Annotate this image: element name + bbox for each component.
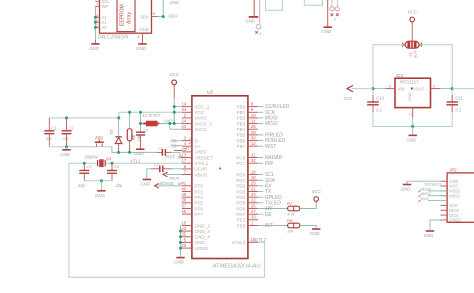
- pin PE2 stub: [248, 219, 258, 221]
- svg-text:44: 44: [181, 124, 186, 129]
- junction VCC pin14: [173, 105, 176, 108]
- wire SDA up: [162, 0, 164, 17]
- svg-text:10: 10: [251, 113, 256, 118]
- svg-text:SENSE: SENSE: [160, 181, 174, 186]
- svg-text:RD+: RD+: [170, 143, 179, 148]
- svg-text:PB6: PB6: [237, 138, 246, 143]
- svg-text:21: 21: [251, 186, 256, 191]
- svg-text:L2: L2: [143, 113, 148, 117]
- svg-text:11: 11: [251, 119, 256, 124]
- resistor R5: [127, 129, 132, 141]
- wire VCC rail B: [119, 111, 174, 113]
- wire C2 gnd drop: [66, 147, 68, 150]
- svg-text:GND: GND: [424, 233, 435, 238]
- svg-text:GND: GND: [310, 231, 321, 236]
- svg-text:SDA: SDA: [168, 14, 177, 19]
- junction A0: [94, 26, 97, 29]
- IC1 pin 2: [431, 88, 441, 90]
- svg-text:GND: GND: [134, 151, 145, 156]
- svg-text:9: 9: [251, 107, 254, 112]
- junction pin2: [451, 87, 454, 90]
- svg-text:C1: C1: [51, 126, 56, 131]
- svg-text:VCC: VCC: [408, 9, 418, 14]
- svg-text:30: 30: [251, 136, 256, 141]
- svg-text:XTAL2: XTAL2: [232, 240, 246, 245]
- junction VCC pin34: [173, 111, 176, 114]
- svg-text:2: 2: [184, 113, 187, 118]
- junction C2 bottom: [65, 145, 68, 148]
- svg-text:PE6: PE6: [237, 223, 246, 228]
- svg-text:GND: GND: [95, 193, 106, 198]
- U2 SDA pin 5: [152, 16, 158, 18]
- svg-text:3V3: 3V3: [344, 96, 353, 101]
- ground below UCAP: [143, 179, 151, 181]
- svg-text:25: 25: [251, 192, 256, 197]
- svg-text:VCC: VCC: [170, 72, 180, 77]
- svg-text:WP: WP: [102, 4, 109, 9]
- wire GND rail: [49, 146, 112, 148]
- svg-text:4.7k: 4.7k: [287, 212, 296, 217]
- wire INT net: [248, 225, 258, 227]
- supply VCC regulator: [410, 17, 415, 22]
- svg-text:PB4: PB4: [237, 127, 246, 132]
- svg-text:GND2: GND2: [449, 218, 461, 223]
- svg-text:42: 42: [181, 147, 186, 152]
- svg-text:16MHz: 16MHz: [84, 154, 99, 159]
- svg-text:A0: A0: [102, 25, 108, 30]
- svg-text:BLM: BLM: [413, 51, 417, 58]
- svg-text:GND_2: GND_2: [195, 223, 211, 228]
- svg-text:GND: GND: [60, 152, 71, 157]
- svg-text:40: 40: [181, 186, 186, 191]
- jumper pads S1: [330, 7, 334, 11]
- svg-text:C11: C11: [455, 95, 462, 100]
- ground JP2 top: [403, 184, 411, 186]
- svg-text:U1: U1: [207, 90, 213, 96]
- wire regulator loop: [373, 45, 452, 127]
- svg-text:PD2: PD2: [236, 184, 245, 189]
- wire VCC rail jog: [118, 112, 120, 118]
- junction C3 top: [83, 162, 86, 165]
- wire AVCC to pins: [169, 124, 171, 130]
- wire UCAP: [172, 168, 182, 170]
- svg-text:PD6: PD6: [236, 206, 245, 211]
- svg-text:4: 4: [137, 35, 139, 39]
- svg-text:REG1117: REG1117: [400, 79, 419, 84]
- U1 internal mark: [219, 168, 221, 170]
- wire RST from button: [112, 147, 157, 153]
- svg-text:PD0: PD0: [236, 172, 245, 177]
- svg-text:SCK: SCK: [421, 196, 430, 201]
- svg-text:1: 1: [409, 113, 413, 115]
- svg-text:R8: R8: [287, 218, 293, 223]
- svg-text:20: 20: [251, 181, 256, 186]
- svg-text:PD7: PD7: [236, 212, 245, 217]
- svg-text:EEPROM: EEPROM: [119, 4, 125, 26]
- svg-text:GND_3: GND_3: [195, 229, 211, 234]
- svg-text:31: 31: [251, 152, 256, 157]
- junction crystal gnd: [100, 179, 103, 182]
- svg-text:PD4: PD4: [236, 195, 245, 200]
- svg-text:C3: C3: [86, 164, 92, 169]
- svg-text:XTL2: XTL2: [253, 238, 266, 244]
- svg-text:PD3: PD3: [236, 189, 245, 194]
- ground top-middle: [324, 26, 332, 28]
- svg-text:PB1: PB1: [237, 110, 246, 115]
- ground below C5: [136, 148, 144, 150]
- junction VCC AVCC: [173, 122, 176, 125]
- capacitor C6 on RST: [157, 151, 162, 153]
- svg-text:VBUS: VBUS: [195, 172, 208, 177]
- wire VCC down to U1: [173, 98, 175, 124]
- svg-text:36: 36: [181, 209, 186, 214]
- svg-text:~RESET: ~RESET: [195, 155, 213, 160]
- JP2 pin stubs: [441, 180, 448, 182]
- svg-text:PB5: PB5: [237, 133, 246, 138]
- svg-text:6: 6: [184, 164, 187, 169]
- wire XTAL2: [248, 241, 258, 243]
- svg-text:GND: GND: [245, 19, 254, 24]
- connector JP2 box: [447, 173, 474, 222]
- wire XTAL2 loop: [69, 163, 265, 277]
- capacitor C1: [48, 118, 50, 131]
- svg-text:41: 41: [181, 181, 186, 186]
- capacitor C11: [451, 95, 453, 102]
- svg-text:C5: C5: [143, 128, 149, 132]
- wire JP2 nets: [428, 190, 447, 192]
- svg-text:VIN: VIN: [398, 86, 405, 91]
- junction AVCC: [168, 122, 171, 125]
- svg-text:GND: GND: [139, 27, 148, 32]
- supply VCC above U1: [172, 80, 177, 85]
- junction C4 top: [111, 162, 114, 165]
- svg-text:39: 39: [181, 192, 186, 197]
- wire loop fragment A: [266, 0, 283, 10]
- svg-text:0.1: 0.1: [376, 108, 382, 113]
- svg-text:XTL1: XTL1: [129, 159, 141, 164]
- svg-text:22p: 22p: [114, 183, 123, 188]
- svg-text:23: 23: [181, 226, 186, 231]
- svg-text:GND: GND: [89, 46, 100, 51]
- supply VCC right: [314, 197, 319, 202]
- svg-text:ATMEGA32U4-AU: ATMEGA32U4-AU: [212, 263, 262, 269]
- ground below R8: [312, 228, 320, 230]
- junction diode top: [117, 116, 120, 119]
- svg-text:GND: GND: [170, 0, 181, 5]
- svg-text:35: 35: [181, 232, 186, 237]
- svg-text:1: 1: [251, 220, 254, 225]
- svg-text:VCC_2: VCC_2: [195, 104, 210, 109]
- svg-text:24: 24: [181, 119, 186, 124]
- IC1 pin 1: [412, 108, 414, 118]
- resistor R8: [288, 223, 300, 228]
- svg-text:15: 15: [181, 220, 186, 225]
- svg-text:BLM21: BLM21: [149, 113, 161, 117]
- svg-text:XTAL1: XTAL1: [195, 161, 209, 166]
- wire VOUT right: [452, 88, 474, 90]
- wire RD-: [172, 140, 182, 142]
- wire VCC rail A: [49, 117, 119, 119]
- svg-text:GND: GND: [321, 29, 332, 34]
- svg-text:R5: R5: [132, 134, 136, 140]
- ferrite bead L2: [141, 123, 147, 125]
- svg-text:PC6: PC6: [236, 155, 245, 160]
- IC1 REG1117 box: [395, 78, 431, 107]
- svg-text:GND: GND: [195, 240, 206, 245]
- junction SDA: [162, 15, 165, 18]
- svg-text:PB2: PB2: [237, 116, 246, 121]
- svg-text:C2: C2: [68, 126, 74, 131]
- svg-text:0.1: 0.1: [63, 136, 69, 141]
- pin AREF stub: [174, 150, 182, 152]
- svg-text:4: 4: [189, 142, 191, 146]
- svg-text:33: 33: [251, 215, 256, 220]
- svg-text:13: 13: [181, 152, 186, 157]
- wire DE net: [248, 213, 258, 215]
- ground below U2 right: [138, 43, 146, 45]
- svg-text:27: 27: [251, 209, 256, 214]
- wire JP2 GND2: [430, 220, 441, 231]
- wire fragment red pair to ground: [253, 0, 255, 16]
- svg-text:L1: L1: [409, 52, 413, 56]
- wire 1W net: [248, 208, 258, 210]
- svg-text:VBUS: VBUS: [169, 176, 180, 181]
- wire crystal gnd rail: [84, 180, 112, 182]
- capacitor C5: [140, 112, 142, 132]
- IC1 pin 3: [373, 88, 386, 90]
- svg-text:PF6: PF6: [195, 206, 204, 211]
- wire IC1 gnd: [412, 127, 414, 136]
- svg-text:29: 29: [251, 130, 256, 135]
- svg-text:32: 32: [251, 158, 256, 163]
- svg-text:7: 7: [184, 169, 187, 174]
- IC U1 ATMEGA32U4 box: [192, 96, 248, 259]
- svg-text:PF4: PF4: [195, 195, 204, 200]
- wire XTAL1 row: [69, 162, 97, 164]
- svg-text:18: 18: [251, 169, 256, 174]
- U1 left pin stubs: [182, 106, 192, 108]
- ground below IC1: [409, 134, 417, 136]
- svg-text:GND: GND: [136, 46, 147, 51]
- svg-text:3: 3: [389, 84, 391, 88]
- net arrow SENSE: [158, 185, 182, 187]
- junction C5 L2 tap: [139, 122, 142, 125]
- ground below U1: [176, 257, 184, 259]
- svg-text:5: 5: [184, 237, 187, 242]
- svg-text:22p: 22p: [77, 183, 86, 188]
- svg-text:PC7: PC7: [236, 161, 245, 166]
- svg-text:UCAP: UCAP: [195, 167, 208, 172]
- svg-text:0.1: 0.1: [455, 108, 461, 113]
- junction pin1 gnd: [411, 125, 414, 128]
- svg-text:PB7: PB7: [237, 144, 246, 149]
- svg-text:UGND: UGND: [195, 246, 209, 251]
- svg-text:PE2: PE2: [237, 218, 246, 223]
- svg-text:PB3: PB3: [237, 121, 246, 126]
- junction diode RST: [117, 151, 120, 154]
- svg-text:37: 37: [181, 203, 186, 208]
- junction A1: [94, 21, 97, 24]
- IC U2 24LC256SN EEPROM box: [100, 0, 152, 33]
- svg-text:GND: GND: [401, 187, 412, 192]
- svg-text:VCC: VCC: [312, 189, 322, 194]
- svg-text:PF7: PF7: [195, 212, 204, 217]
- U2 GND pin 4 to ground: [142, 33, 144, 44]
- wire RD+: [172, 145, 182, 147]
- capacitor C4: [111, 163, 113, 170]
- svg-text:DE: DE: [265, 212, 273, 218]
- svg-text:3: 3: [184, 136, 187, 141]
- svg-text:!RST: !RST: [265, 144, 277, 150]
- svg-text:PD1: PD1: [236, 178, 245, 183]
- svg-text:1: 1: [260, 32, 262, 36]
- junction pin3: [372, 87, 375, 90]
- svg-text:C10: C10: [376, 95, 384, 100]
- svg-text:AVCC_2: AVCC_2: [195, 121, 213, 126]
- svg-text:C4: C4: [114, 164, 120, 169]
- svg-text:26: 26: [251, 203, 256, 208]
- junction R5 top: [128, 111, 131, 114]
- svg-text:!RST: !RST: [165, 155, 175, 160]
- ground JP2 bottom: [426, 230, 434, 232]
- svg-text:22: 22: [251, 198, 256, 203]
- svg-text:VOUT: VOUT: [413, 86, 425, 91]
- ferrite bead L1: [402, 44, 406, 46]
- wire VCC to L1: [411, 22, 413, 41]
- capacitor C2: [66, 118, 68, 131]
- wire to ground top-middle: [327, 0, 329, 27]
- crystal Q1 16MHz: [97, 160, 99, 166]
- svg-text:17: 17: [181, 158, 186, 163]
- svg-text:28: 28: [181, 243, 186, 248]
- svg-text:GND: GND: [406, 137, 417, 142]
- svg-text:UVCC: UVCC: [195, 116, 209, 121]
- svg-text:GND: GND: [407, 92, 412, 101]
- svg-text:PB1: PB1: [95, 136, 103, 141]
- net arrow VBUS: [166, 174, 182, 176]
- svg-text:MISO: MISO: [265, 121, 278, 127]
- svg-text:PD5: PD5: [236, 201, 245, 206]
- net arrow 3V3: [352, 88, 373, 90]
- svg-text:IC1: IC1: [396, 73, 403, 78]
- svg-text:R7: R7: [287, 201, 293, 206]
- svg-text:INT: INT: [265, 223, 274, 229]
- svg-text:19: 19: [251, 175, 256, 180]
- junction C2 top: [65, 116, 68, 119]
- wire U2 address pins to GND: [94, 6, 96, 40]
- wire loop fragment B: [304, 0, 322, 5]
- svg-text:PF0: PF0: [195, 184, 204, 189]
- svg-text:VCC: VCC: [195, 110, 205, 115]
- svg-text:MISO: MISO: [449, 193, 459, 198]
- wire R8 to GND: [300, 226, 316, 229]
- svg-text:14: 14: [181, 102, 186, 107]
- wire JP2 GND: [407, 181, 441, 184]
- svg-text:7: 7: [96, 3, 98, 7]
- svg-text:28: 28: [251, 124, 256, 129]
- ground below crystal caps: [97, 190, 105, 192]
- ground below U2 left: [94, 40, 96, 44]
- svg-text:10k: 10k: [287, 229, 294, 234]
- svg-text:5: 5: [153, 12, 155, 16]
- svg-text:D-: D-: [195, 138, 200, 143]
- svg-text:AVCC: AVCC: [195, 127, 208, 132]
- resistor R7: [288, 206, 300, 211]
- svg-text:PB0: PB0: [237, 104, 246, 109]
- svg-text:SDA: SDA: [140, 14, 149, 19]
- svg-text:38: 38: [181, 198, 186, 203]
- junction C5 top: [139, 111, 142, 114]
- svg-text:0.1: 0.1: [46, 136, 52, 141]
- svg-text:12: 12: [251, 141, 256, 146]
- svg-text:2: 2: [433, 84, 435, 88]
- svg-text:S: S: [334, 18, 337, 22]
- svg-text:4: 4: [184, 141, 187, 146]
- svg-text:GND: GND: [174, 260, 185, 265]
- capacitor C10: [372, 95, 374, 102]
- svg-text:Q1: Q1: [106, 156, 111, 161]
- wire RST to pin: [171, 151, 180, 153]
- svg-text:AREF: AREF: [195, 150, 207, 155]
- svg-text:GND_4: GND_4: [195, 235, 211, 240]
- svg-text:24LC256SN: 24LC256SN: [97, 35, 129, 41]
- svg-text:PF1: PF1: [195, 189, 204, 194]
- svg-text:34: 34: [181, 107, 186, 112]
- wire U1 GND chain: [180, 226, 182, 258]
- svg-text:PF5: PF5: [195, 201, 204, 206]
- svg-text:PIR: PIR: [265, 161, 274, 167]
- wire R7 to VCC: [300, 201, 316, 208]
- wire SDA: [158, 16, 164, 18]
- svg-text:Array: Array: [126, 12, 132, 24]
- svg-text:JP2: JP2: [448, 167, 457, 172]
- U2 pin stubs left: [95, 0, 99, 2]
- svg-text:8: 8: [251, 102, 254, 107]
- capacitor UCAP: [151, 168, 160, 170]
- svg-text:GND: GND: [140, 182, 151, 187]
- junction R5 bottom: [128, 151, 131, 154]
- ground below C1 C2: [62, 149, 70, 151]
- junction A2: [94, 16, 97, 19]
- svg-text:D+: D+: [195, 144, 201, 149]
- capacitor C3: [83, 163, 85, 170]
- U1 right pin stubs and nets: [248, 106, 258, 108]
- svg-text:D1: D1: [110, 129, 114, 134]
- diode D1: [118, 118, 120, 136]
